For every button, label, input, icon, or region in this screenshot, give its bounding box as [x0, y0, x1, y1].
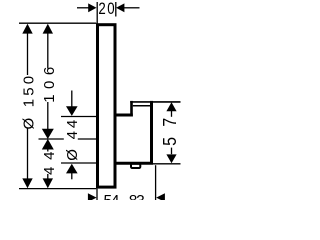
dimension 20 left arrow tail	[77, 7, 89, 9]
dimension 106 line lower segment	[47, 102, 49, 130]
dimension 44 top arrowhead pointing up	[42, 139, 54, 150]
dimension O44 upper arrow tail	[71, 91, 73, 108]
handle right face	[150, 101, 153, 165]
dimension 20 left arrowhead pointing right	[88, 3, 96, 12]
svg-text:106: 106	[41, 67, 58, 103]
dimension 54-83 left arrowhead pointing right	[88, 193, 97, 202]
handle bottom edge	[115, 162, 153, 165]
handle knob top edge / extension line for 57	[130, 101, 180, 103]
dimension 57 line lower segment	[171, 148, 173, 155]
escutcheon plate body (side view)	[98, 25, 116, 187]
svg-text:20: 20	[98, 0, 116, 18]
dimension O44 lower arrowhead pointing up	[66, 164, 78, 174]
svg-text:83: 83	[129, 193, 145, 200]
dimension 44 line lower segment	[47, 174, 49, 180]
extension line upper for O44	[61, 116, 96, 118]
dimension O44 lower arrow tail	[71, 173, 73, 180]
handle knob face chamfer line	[133, 105, 151, 107]
dimension 54-83 right arrowhead pointing left	[156, 193, 165, 202]
extension line left of dimension 20 (plate front face)	[96, 2, 98, 24]
shared extension line at 106/44 boundary, left part	[39, 138, 64, 140]
extension line right of dimension 54-83 (below handle face)	[155, 165, 157, 200]
extension line at plate bottom level	[19, 188, 96, 190]
dimension 20 right arrowhead pointing left	[116, 3, 124, 12]
dimension O150 bottom arrowhead pointing down	[22, 178, 32, 188]
dimension 57 line upper segment	[171, 111, 173, 117]
extension line right of dimension 20 (plate back face)	[115, 2, 117, 17]
dimension 44 line upper segment	[47, 147, 49, 151]
dimension 106 bottom arrowhead pointing down	[42, 129, 54, 139]
dimension O150 line lower segment	[27, 129, 29, 180]
svg-text:Ø 150: Ø 150	[20, 76, 37, 130]
dimension 44 bottom arrowhead pointing down	[43, 178, 53, 188]
extension line left of dimension 54-83 (below plate)	[96, 189, 98, 200]
shared extension line at 106/44 boundary, right part	[78, 138, 96, 140]
dimension O150 line upper segment	[27, 33, 29, 75]
handle bottom tab	[131, 164, 140, 168]
dimension 106 line upper segment	[47, 33, 49, 69]
dimension 57 top arrowhead pointing up	[166, 102, 176, 111]
svg-text:Ø 44: Ø 44	[64, 120, 81, 161]
handle knob lip left edge	[130, 101, 133, 117]
dimension O150 top arrowhead pointing up	[22, 24, 32, 34]
dimension O44 upper arrowhead pointing down	[66, 106, 78, 116]
handle neck top edge	[114, 114, 133, 117]
extension line bottom for 57	[152, 163, 181, 165]
dimension 57 bottom arrowhead pointing down	[166, 154, 176, 163]
dimension 106 top arrowhead pointing up	[43, 24, 53, 34]
extension line lower for O44	[61, 162, 96, 164]
extension line at plate top level	[19, 22, 96, 24]
dimension 20 right arrow tail	[124, 7, 140, 9]
svg-text:54: 54	[104, 193, 120, 200]
